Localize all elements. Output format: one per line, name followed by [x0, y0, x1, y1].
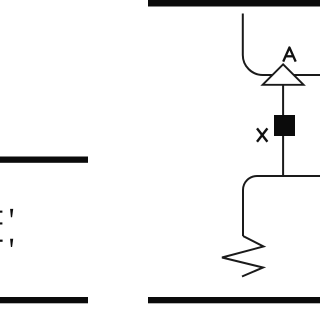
cut label E' row 1: E arm stubs: [0, 211, 2, 213]
bottom rule of right panel: [148, 297, 320, 303]
top rule of right panel: [148, 0, 320, 7]
node A triangle: [263, 64, 304, 85]
cut label E' row 1: prime mark: [10, 209, 13, 217]
label X: [257, 128, 267, 141]
cut label E' row 2: E arm stub: [0, 240, 3, 242]
label A: [283, 48, 296, 62]
wire lower horizontal with rounded corner: [243, 176, 320, 236]
cut label E' row 2: prime mark: [10, 239, 13, 247]
spring zigzag: [222, 236, 264, 277]
mid rule of left panel: [0, 157, 88, 163]
wire from top into curve and node A level: [243, 14, 320, 76]
wire vertical through component X: [282, 84, 284, 176]
component X square: [274, 115, 295, 136]
bottom rule of left panel: [0, 297, 88, 303]
